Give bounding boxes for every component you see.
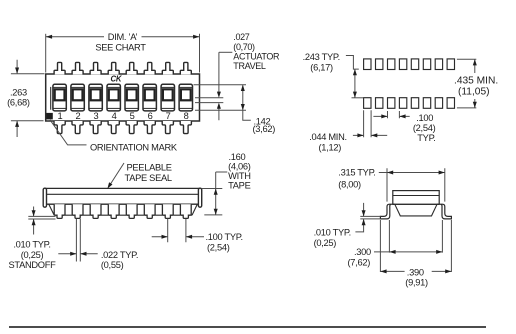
DIM A left extension line (45, 34, 47, 73)
side pin tab 7 (162, 204, 173, 218)
left gull-wing lead (380, 204, 394, 219)
switch 7 (161, 84, 174, 111)
.390 extension lines (380, 220, 451, 272)
actuator travel arrows (218, 52, 220, 120)
actuator position lines (195, 98, 223, 103)
svg-text:.243 TYP.: .243 TYP. (303, 52, 340, 62)
svg-text:.010 TYP.: .010 TYP. (13, 239, 50, 249)
svg-text:.390: .390 (407, 267, 424, 277)
svg-text:6: 6 (148, 111, 153, 121)
svg-text:1: 1 (57, 111, 62, 121)
tape wrap left end (43, 188, 46, 207)
DIM A dimension line (46, 36, 199, 38)
.044 arrows (353, 134, 387, 136)
svg-text:.300: .300 (354, 247, 371, 257)
standoff extension lines (28, 216, 55, 219)
.160 extension lines (202, 189, 223, 215)
top pin 8 (180, 62, 191, 74)
.010 extension lines (end view) (360, 216, 380, 219)
.022 arrows (58, 253, 97, 255)
bottom pin 5 (126, 121, 137, 134)
switch 6 (143, 84, 156, 111)
svg-text:(6,17): (6,17) (310, 63, 333, 73)
pin1 indicator bar (50, 87, 52, 110)
.263 arrows (16, 60, 18, 137)
svg-text:5: 5 (130, 111, 135, 121)
.022 extension lines (76, 219, 80, 262)
side pin tab 4 (108, 204, 119, 218)
svg-text:.027: .027 (233, 32, 249, 42)
base right slant (192, 204, 197, 215)
top row pads 1-8 (364, 59, 371, 70)
svg-text:CK: CK (111, 75, 123, 84)
.435 dimension arrows (474, 60, 476, 108)
svg-text:SEE CHART: SEE CHART (95, 43, 146, 53)
right gull-wing lead (437, 204, 451, 219)
svg-text:8: 8 (184, 111, 189, 121)
.315 dimension line (379, 172, 445, 174)
PEELABLE TAPE SEAL leader arrow (109, 163, 124, 187)
side pin tab 1 (54, 204, 65, 218)
.100 extension lines (side) (168, 219, 186, 242)
DIM A right extension line (199, 34, 201, 73)
base bottom lines between tabs (65, 214, 180, 216)
tape wrap right end (198, 188, 201, 207)
.142 dimension arrows (243, 85, 251, 120)
.100 arrows (side) (152, 236, 204, 238)
side pin tab 6 (144, 204, 155, 218)
svg-text:.022 TYP.: .022 TYP. (101, 250, 138, 260)
svg-text:(6,68): (6,68) (7, 98, 30, 108)
svg-text:(2,54): (2,54) (207, 243, 230, 253)
.100 arrows (373, 115, 409, 117)
switch 2 (71, 84, 84, 111)
.243 dimension arrows (354, 69, 356, 97)
top pin 6 (144, 62, 155, 74)
body outline with tape seal (44, 188, 202, 204)
label .160 (4,06) WITH TAPE (228, 152, 251, 191)
svg-text:TYP.: TYP. (417, 133, 435, 143)
svg-text:WITH: WITH (228, 171, 251, 181)
.300 extension lines (389, 220, 442, 253)
switch 8 (179, 84, 192, 111)
top pin 3 (90, 62, 101, 74)
svg-text:TAPE: TAPE (228, 181, 250, 191)
.435 extension lines (457, 59, 476, 108)
base bottom segments (54, 214, 192, 216)
bottom pin 1 (54, 121, 65, 134)
.390 dimension line (380, 270, 451, 272)
orientation mark leader (50, 120, 87, 145)
svg-text:DIM. ’A’: DIM. ’A’ (108, 32, 138, 42)
svg-text:(9,91): (9,91) (405, 277, 428, 287)
svg-text:.263: .263 (10, 87, 27, 97)
position numbers 1-8 (57, 111, 188, 121)
svg-text:(0,55): (0,55) (101, 260, 124, 270)
actuator cap (393, 191, 439, 205)
top pin 4 (108, 62, 119, 74)
switch 3 (89, 84, 102, 111)
bottom rule (9, 326, 486, 328)
svg-text:.044 MIN.: .044 MIN. (309, 132, 347, 142)
.300 dimension line (374, 251, 442, 253)
side pin tab 2 (72, 204, 83, 218)
svg-text:(7,62): (7,62) (348, 258, 371, 268)
bottom pin 3 (90, 121, 101, 134)
svg-text:.100: .100 (416, 113, 433, 123)
bottom pin 6 (144, 121, 155, 134)
.160 dimension arrows with leader (216, 172, 228, 215)
side pin tab 5 (126, 204, 137, 218)
svg-text:.435 MIN.: .435 MIN. (454, 75, 498, 86)
.010 arrows (end view) (355, 203, 363, 232)
svg-text:(0,25): (0,25) (314, 238, 337, 248)
switch 1 (53, 84, 66, 111)
svg-text:(4,06): (4,06) (228, 162, 251, 172)
svg-text:2: 2 (75, 111, 80, 121)
svg-text:(8,00): (8,00) (338, 179, 361, 189)
.044 extension lines (364, 110, 372, 137)
.100 ticks (388, 111, 400, 118)
svg-text:(0,25): (0,25) (21, 250, 44, 260)
base left slant (49, 204, 54, 215)
side pin tab 3 (90, 204, 101, 218)
svg-text:3: 3 (93, 111, 98, 121)
svg-text:.010 TYP.: .010 TYP. (314, 228, 351, 238)
.243 leader bracket (346, 56, 359, 70)
.142 extension lines (194, 85, 247, 110)
standoff arrows (33, 207, 35, 235)
bottom pin 7 (162, 121, 173, 134)
svg-text:ORIENTATION MARK: ORIENTATION MARK (90, 142, 178, 152)
orientation mark (filled square) (46, 113, 53, 120)
bottom pin 8 (180, 121, 191, 134)
svg-text:TRAVEL: TRAVEL (233, 61, 266, 71)
top pin 1 (54, 62, 65, 74)
molded base trapezoid (393, 204, 439, 216)
top pin 7 (162, 62, 173, 74)
.263 extension lines (11, 74, 45, 121)
svg-text:4: 4 (112, 111, 117, 121)
bottom pin 2 (72, 121, 83, 134)
.315 extension lines (387, 168, 445, 201)
svg-text:(3,62): (3,62) (253, 124, 276, 134)
switch 4 (107, 84, 120, 111)
svg-text:TAPE SEAL: TAPE SEAL (125, 173, 172, 183)
svg-text:STANDOFF: STANDOFF (8, 260, 56, 270)
switch 5 (125, 84, 138, 111)
tape seal lower edge (44, 193, 202, 195)
svg-text:(2,54): (2,54) (413, 123, 436, 133)
bottom row pads 1-8 (364, 98, 371, 109)
side pin tab 8 (180, 204, 191, 218)
svg-text:7: 7 (166, 111, 171, 121)
actuator travel leader bracket (219, 51, 232, 53)
svg-text:.100 TYP.: .100 TYP. (206, 232, 243, 242)
bottom pin 4 (108, 121, 119, 134)
svg-text:(1,12): (1,12) (319, 142, 342, 152)
switch body outline (46, 74, 200, 121)
cap tape line (393, 195, 439, 197)
top pin 2 (72, 62, 83, 74)
label .027 (0,70) ACTUATOR TRAVEL (233, 32, 280, 71)
top pin 5 (126, 62, 137, 74)
svg-text:PEELABLE: PEELABLE (127, 162, 172, 172)
svg-text:.315 TYP.: .315 TYP. (338, 168, 375, 178)
svg-text:.160: .160 (229, 152, 246, 162)
.243 lower tick (352, 97, 364, 99)
svg-text:(11,05): (11,05) (458, 87, 490, 98)
